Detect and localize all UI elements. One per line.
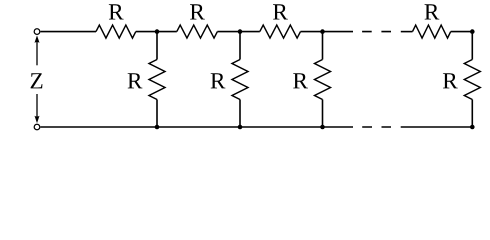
value label R of R4	[425, 4, 440, 19]
value label R of R3	[273, 4, 288, 19]
wire top rail: R3 to dashed break	[301, 31, 354, 33]
wire top rail: left terminal to R1	[40, 31, 96, 33]
arrow shaft upper (Z measurement, pointing to top terminal)	[36, 42, 38, 66]
resistor R2 (series R, horizontal zigzag)	[177, 25, 218, 38]
node D top junction dot	[470, 29, 475, 34]
wire bottom rail: to right corner node	[401, 126, 473, 128]
wire: top lead of shunt R6	[239, 32, 241, 60]
wire: bottom lead of shunt R8	[471, 100, 473, 128]
value label R of R8	[443, 73, 458, 88]
resistor R4 (series R, horizontal zigzag)	[413, 25, 451, 38]
terminal: bottom-left open circle	[34, 124, 40, 130]
wire top rail: R4 to right corner node	[451, 31, 473, 33]
label Z (input impedance)	[31, 73, 43, 88]
wire top rail: lead into R4	[401, 31, 413, 33]
node D' bottom junction dot	[470, 125, 475, 130]
node C' bottom junction dot	[320, 125, 325, 130]
resistor R5 (shunt R, vertical zigzag)	[149, 60, 165, 100]
wire: top lead of shunt R5	[156, 32, 158, 60]
node A top junction dot	[155, 29, 160, 34]
resistor R8 (shunt R, vertical zigzag)	[464, 60, 480, 100]
wire top rail: dashed continuation	[362, 31, 391, 33]
value label R of R7	[293, 73, 308, 88]
arrowhead down at bottom terminal	[35, 116, 40, 123]
resistor R7 (shunt R, vertical zigzag)	[315, 60, 331, 100]
wire: bottom lead of shunt R7	[322, 100, 324, 128]
node B' bottom junction dot	[238, 125, 243, 130]
arrowhead up at top terminal	[35, 35, 40, 42]
value label R of R5	[128, 73, 143, 88]
terminal: top-left open circle	[34, 29, 40, 35]
arrow shaft lower (Z measurement, pointing to bottom terminal)	[36, 94, 38, 117]
node A' bottom junction dot	[155, 125, 160, 130]
value label R of R6	[211, 73, 226, 88]
value label R of R2	[190, 4, 205, 19]
wire bottom rail: left terminal to dashed break	[40, 126, 353, 128]
wire: top lead of shunt R8	[471, 32, 473, 60]
resistor R6 (shunt R, vertical zigzag)	[232, 60, 248, 100]
wire: bottom lead of shunt R6	[239, 100, 241, 128]
wire top rail: R1 to R2 (through node 1)	[136, 31, 177, 33]
wire: bottom lead of shunt R5	[156, 100, 158, 128]
wire top rail: R2 to R3 (through node 2)	[217, 31, 259, 33]
node C top junction dot	[320, 29, 325, 34]
wire bottom rail: dashed continuation	[362, 126, 391, 128]
resistor R1 (series R, horizontal zigzag)	[96, 25, 136, 38]
value label R of R1	[109, 4, 124, 19]
node B top junction dot	[238, 29, 243, 34]
resistor R3 (series R, horizontal zigzag)	[260, 25, 301, 38]
wire: top lead of shunt R7	[322, 32, 324, 60]
